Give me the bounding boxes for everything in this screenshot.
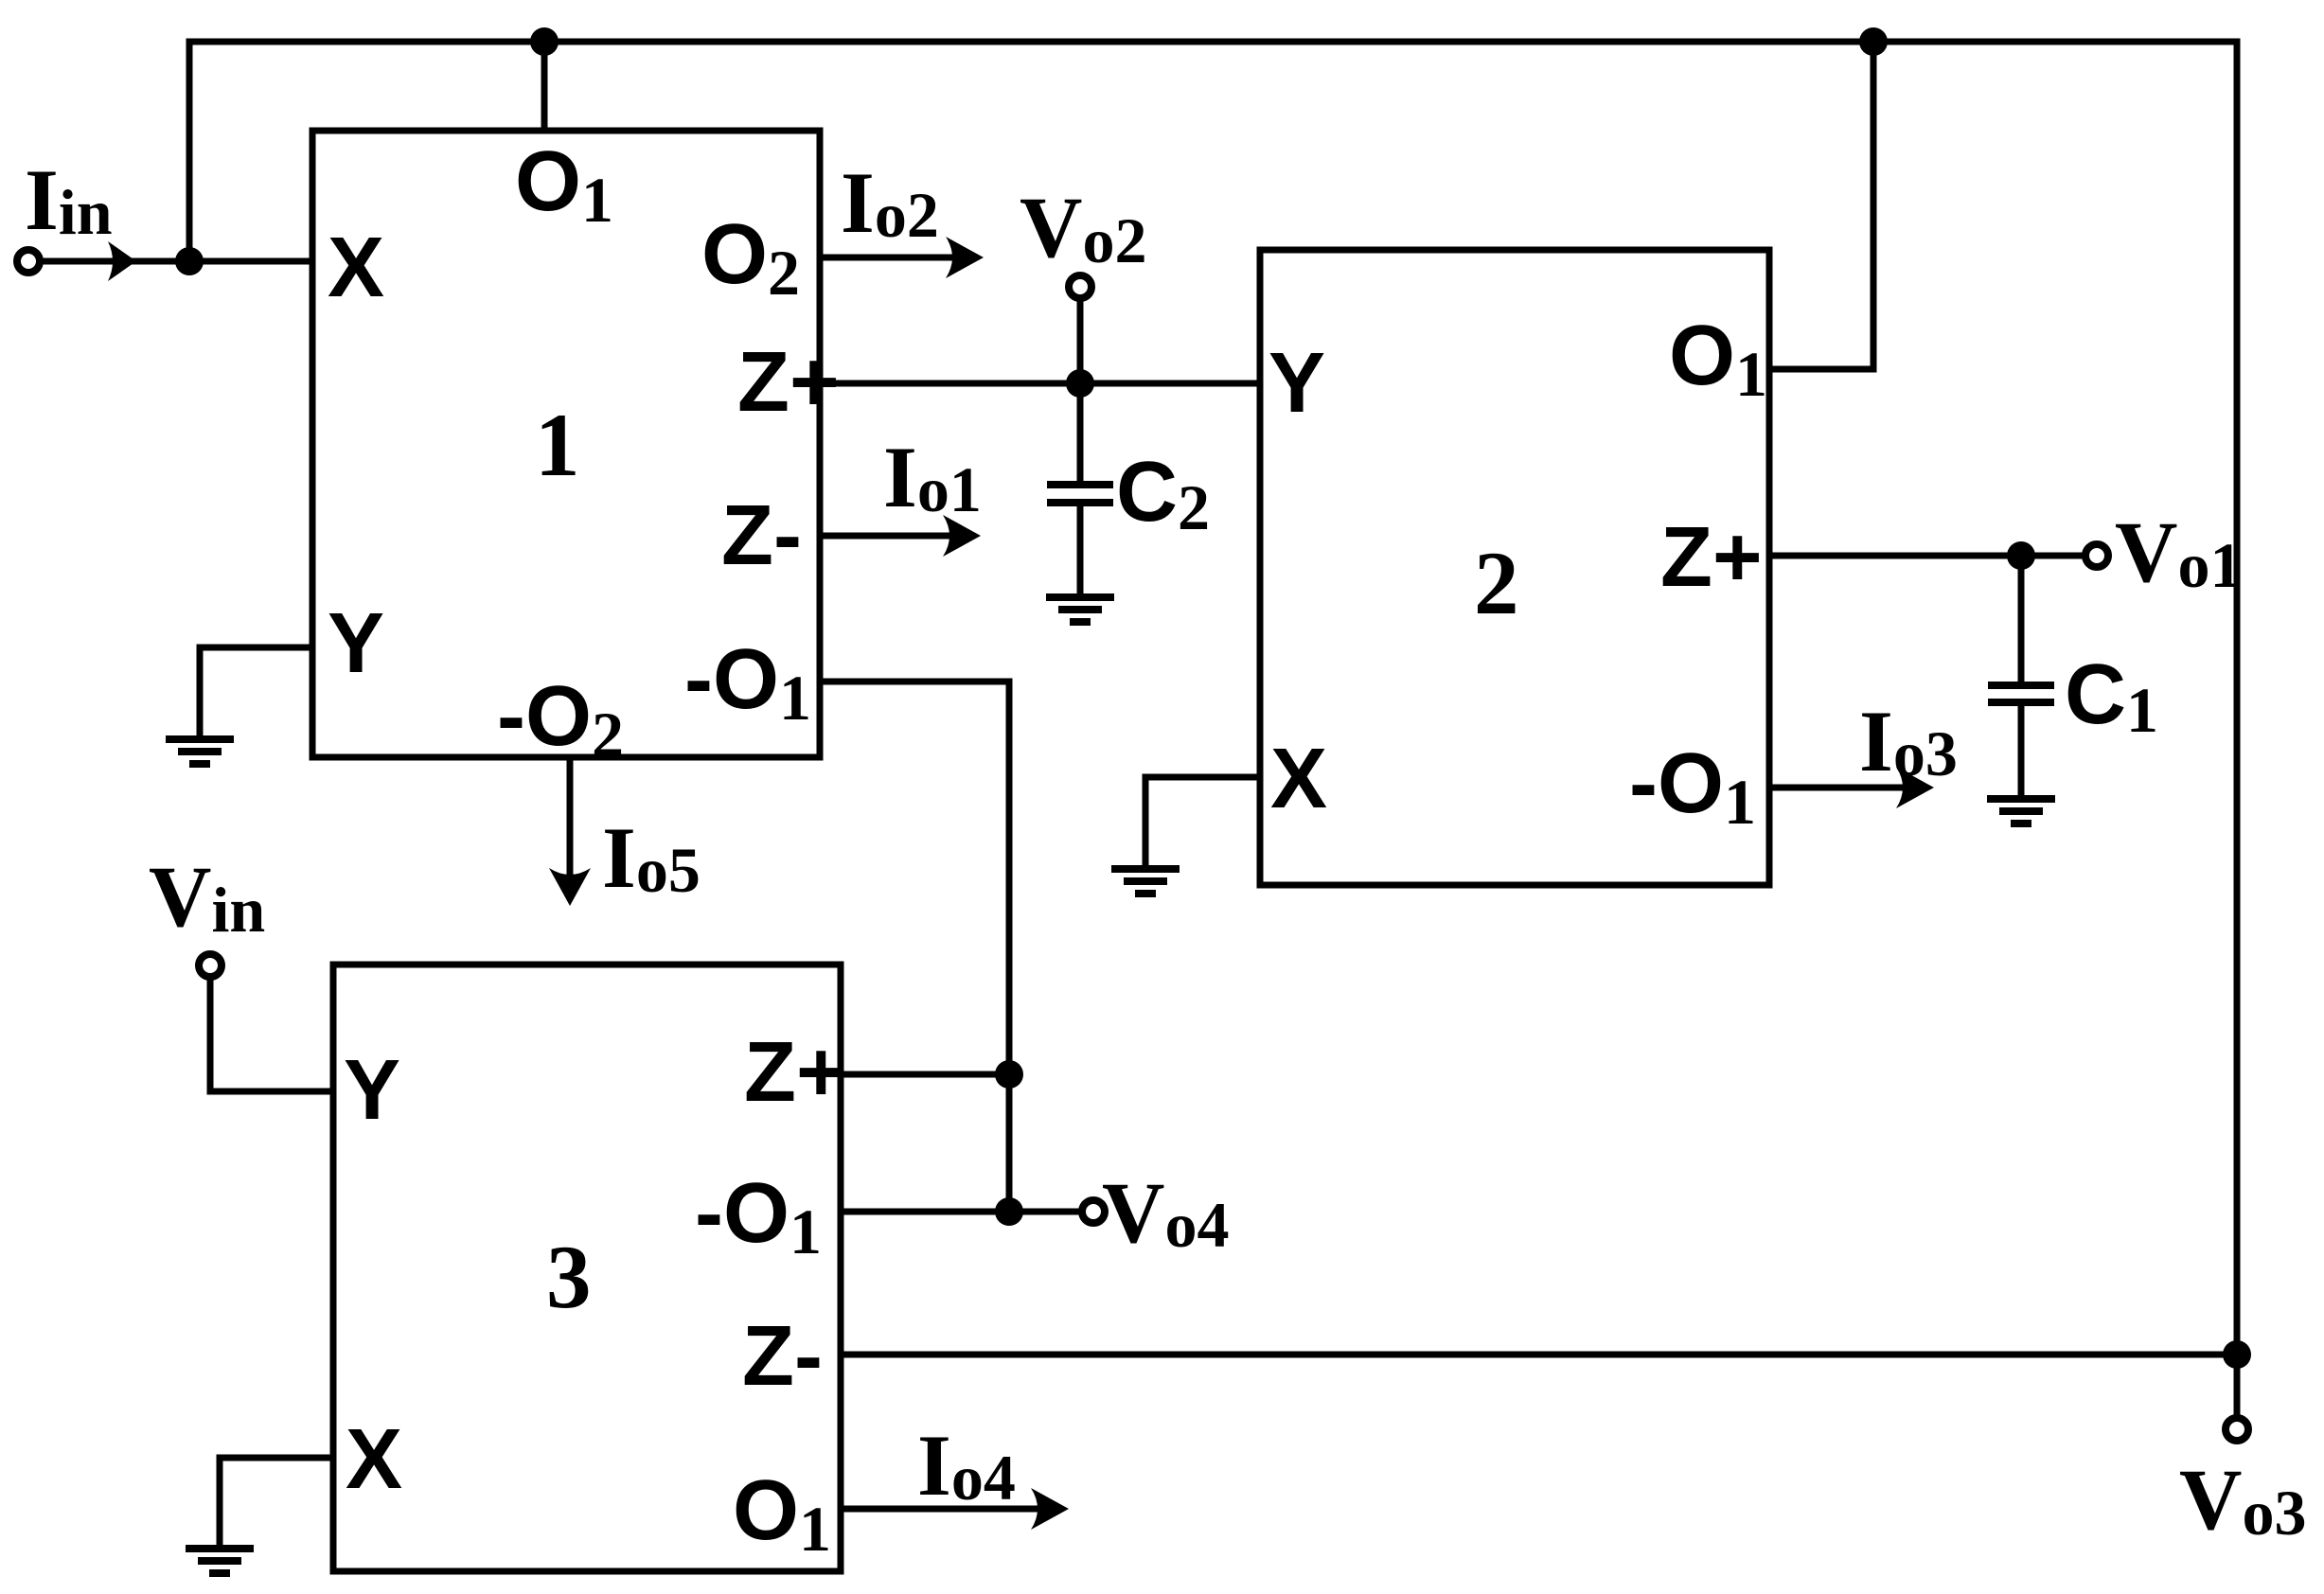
svg-text:O1: O1 [733, 1463, 831, 1565]
junction Z+ of block 3 and -O1 line [995, 1060, 1023, 1089]
svg-text:-O1: -O1 [684, 632, 811, 734]
wire Vo2 stub [1077, 300, 1084, 383]
svg-text:Z+: Z+ [737, 335, 840, 430]
wire C2 top stub [1077, 383, 1084, 485]
arrowhead Io1 [943, 515, 981, 557]
svg-text:Y: Y [344, 1043, 400, 1138]
wire Vo3 stub [2234, 1355, 2241, 1416]
svg-text:C2: C2 [1116, 445, 1210, 543]
block 3 (current conveyor 3) [333, 965, 841, 1571]
svg-text:X: X [328, 221, 384, 315]
junction -O1 of block 3 Vo4 node [995, 1197, 1023, 1226]
junction Z+ C2 node [1066, 369, 1094, 398]
ground under C2 [1046, 597, 1114, 622]
svg-text:Io1: Io1 [883, 429, 982, 525]
arrowhead Io4 [1031, 1488, 1069, 1530]
svg-text:Z-: Z- [742, 1309, 823, 1404]
svg-text:-O1: -O1 [1629, 736, 1756, 838]
svg-text:Vo2: Vo2 [1020, 179, 1146, 276]
wire C1 bottom stub to ground [2018, 702, 2025, 796]
terminal Iin [17, 250, 40, 273]
terminal Vo1 [2085, 544, 2108, 567]
wire Z+ of block 3 to node [841, 1072, 1009, 1078]
junction O1 top rail [530, 27, 559, 56]
arrowhead Iin [108, 241, 136, 281]
svg-text:1: 1 [535, 395, 580, 495]
capacitor C1 [1988, 685, 2054, 702]
svg-text:-O2: -O2 [497, 669, 624, 770]
ground under Y of block 1 [166, 739, 234, 764]
svg-text:Y: Y [1268, 336, 1325, 431]
wire C1 top stub [2018, 556, 2025, 685]
terminal Vin [199, 954, 222, 977]
terminal Vo2 [1069, 275, 1091, 298]
wire -O1 of block 3 to Vo4 [841, 1209, 1080, 1215]
wire Z+ of block 1 to Y of block 2 [820, 381, 1260, 387]
wire top rail with left drop and right rail [189, 42, 2237, 1355]
svg-text:X: X [1270, 732, 1327, 826]
svg-text:-O1: -O1 [695, 1166, 822, 1267]
svg-text:Z-: Z- [721, 488, 802, 583]
svg-text:O2: O2 [701, 207, 800, 309]
ground under X of block 3 [186, 1549, 254, 1573]
wire Iin input to X pin of block 1 [42, 258, 312, 265]
svg-text:Vo1: Vo1 [2115, 504, 2242, 601]
terminal Vo4 [1082, 1200, 1105, 1223]
wire O1 output of block 3 [841, 1506, 1045, 1513]
svg-text:3: 3 [546, 1227, 592, 1327]
block 2 (current conveyor 2) [1260, 250, 1769, 885]
svg-text:Iin: Iin [25, 151, 113, 248]
wire -O2 stub below block 1 [567, 757, 574, 882]
junction Z- right rail Vo3 node [2223, 1340, 2251, 1369]
wire -O1 output of block 2 [1769, 785, 1910, 791]
svg-text:O1: O1 [1669, 309, 1767, 410]
arrowhead Io5 (downward) [549, 868, 591, 906]
svg-text:Io5: Io5 [602, 809, 701, 906]
wire X of block 2 to ground [1145, 777, 1260, 867]
svg-text:Z+: Z+ [744, 1025, 846, 1120]
junction Z+ C1 Vo1 node [2007, 541, 2035, 570]
wire O1 stub from top rail to block 1 top [541, 42, 548, 131]
terminal Vo3 [2226, 1418, 2248, 1441]
capacitor C2 [1047, 485, 1113, 503]
wire X of block 3 to ground [220, 1458, 333, 1545]
svg-text:O1: O1 [515, 134, 613, 236]
arrowhead Io2 [946, 237, 984, 278]
svg-text:X: X [346, 1412, 402, 1507]
svg-text:Vo3: Vo3 [2179, 1451, 2306, 1549]
svg-text:C1: C1 [2065, 647, 2158, 746]
ground under X of block 2 [1111, 869, 1180, 894]
wire O1 of block 2 up to top rail [1769, 42, 1873, 369]
svg-text:Io2: Io2 [841, 154, 939, 251]
svg-text:Y: Y [328, 596, 384, 691]
junction O1 of block 2 top rail [1859, 27, 1888, 56]
wire Vin to Y of block 3 [210, 979, 333, 1091]
wire Z- output of block 1 [820, 533, 957, 540]
svg-text:Vin: Vin [149, 848, 265, 946]
svg-text:Io3: Io3 [1859, 693, 1958, 789]
wire C2 bottom stub to ground [1077, 503, 1084, 595]
wire Z- of block 3 to right rail [841, 1352, 2237, 1358]
ground under C1 [1987, 799, 2055, 824]
wire Y of block 1 to ground [200, 647, 312, 736]
svg-text:Io4: Io4 [917, 1417, 1016, 1514]
wire -O1 of block 1 down to block 3 outputs [820, 682, 1009, 1212]
junction Iin X node [175, 247, 204, 275]
block 1 (current conveyor 1) [312, 131, 820, 757]
svg-text:2: 2 [1474, 533, 1519, 633]
svg-text:Z+: Z+ [1660, 510, 1763, 605]
wire O2 output of block 1 [820, 255, 960, 261]
arrowhead Io3 [1896, 767, 1934, 808]
svg-text:Vo4: Vo4 [1102, 1164, 1229, 1261]
wire Z+ of block 2 to Vo1 [1769, 553, 2084, 559]
